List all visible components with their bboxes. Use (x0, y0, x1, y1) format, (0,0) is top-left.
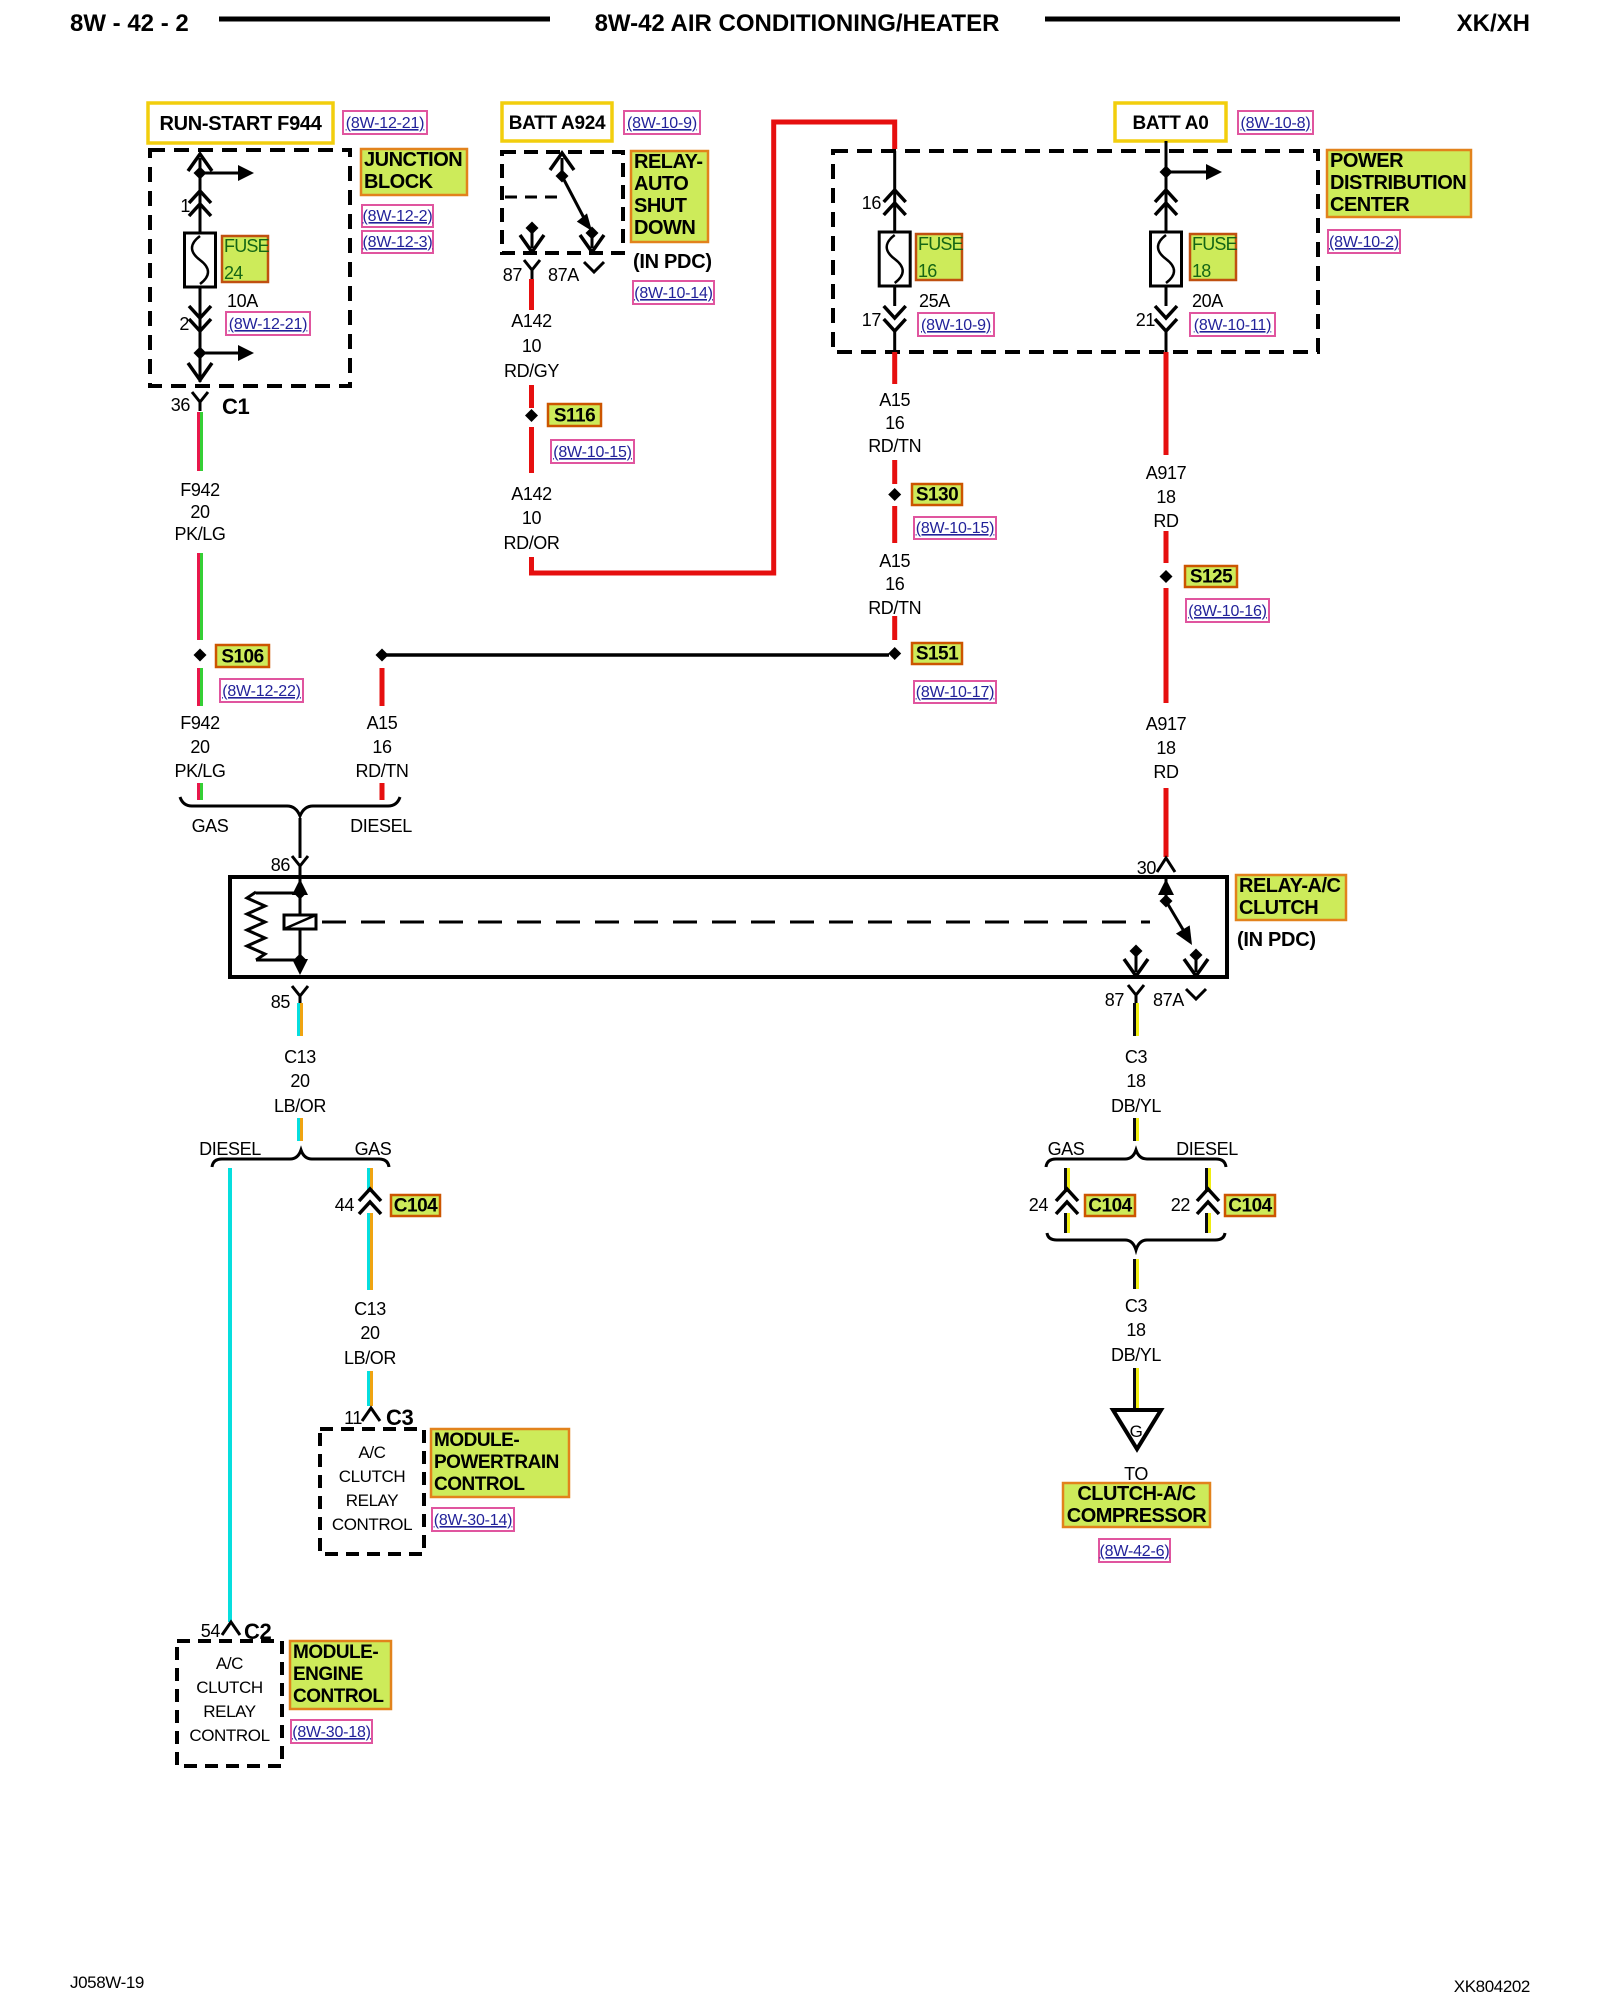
svg-text:(IN PDC): (IN PDC) (633, 251, 712, 273)
svg-text:CONTROL: CONTROL (332, 1515, 412, 1534)
svg-text:AUTO: AUTO (634, 173, 688, 195)
svg-text:ENGINE: ENGINE (293, 1664, 363, 1685)
svg-text:RELAY-: RELAY- (634, 151, 703, 173)
svg-text:RELAY: RELAY (203, 1702, 256, 1721)
svg-text:PK/LG: PK/LG (174, 524, 225, 544)
svg-text:S106: S106 (221, 647, 263, 668)
svg-text:(8W-30-18): (8W-30-18) (292, 1724, 371, 1741)
svg-text:16: 16 (862, 193, 882, 213)
svg-text:18: 18 (1126, 1320, 1146, 1340)
svg-text:8W - 42 - 2: 8W - 42 - 2 (70, 10, 189, 37)
svg-text:S116: S116 (554, 406, 595, 427)
svg-text:GAS: GAS (355, 1139, 392, 1159)
svg-text:DIESEL: DIESEL (199, 1139, 261, 1159)
svg-text:10: 10 (522, 508, 542, 528)
svg-text:DISTRIBUTION: DISTRIBUTION (1330, 172, 1466, 194)
svg-text:25A: 25A (919, 291, 950, 311)
svg-text:(8W-12-2): (8W-12-2) (363, 208, 433, 225)
svg-text:16: 16 (372, 737, 392, 757)
svg-text:54: 54 (201, 1621, 221, 1641)
svg-text:CONTROL: CONTROL (293, 1686, 384, 1707)
svg-text:A142: A142 (511, 311, 552, 331)
svg-text:24: 24 (1029, 1195, 1049, 1215)
svg-text:A/C: A/C (358, 1443, 385, 1462)
svg-text:CLUTCH: CLUTCH (339, 1467, 406, 1486)
svg-text:POWER: POWER (1330, 150, 1404, 172)
svg-text:G: G (1130, 1422, 1143, 1441)
svg-text:RELAY-A/C: RELAY-A/C (1239, 875, 1341, 897)
svg-text:87: 87 (503, 265, 523, 285)
svg-text:LB/OR: LB/OR (344, 1348, 396, 1368)
svg-text:MODULE-: MODULE- (434, 1430, 519, 1451)
svg-text:GAS: GAS (192, 816, 229, 836)
svg-text:DOWN: DOWN (634, 217, 695, 239)
svg-text:18: 18 (1156, 738, 1176, 758)
svg-text:18: 18 (1192, 261, 1211, 281)
svg-text:POWERTRAIN: POWERTRAIN (434, 1452, 559, 1473)
svg-text:36: 36 (171, 395, 191, 415)
svg-text:COMPRESSOR: COMPRESSOR (1067, 1505, 1208, 1527)
svg-text:C3: C3 (386, 1405, 413, 1430)
svg-text:(8W-10-9): (8W-10-9) (921, 317, 991, 334)
svg-text:RELAY: RELAY (346, 1491, 399, 1510)
svg-text:87A: 87A (548, 265, 579, 285)
svg-text:A/C: A/C (216, 1654, 243, 1673)
svg-text:(8W-42-6): (8W-42-6) (1100, 1543, 1170, 1560)
svg-text:C104: C104 (1228, 1196, 1272, 1217)
svg-text:RD/GY: RD/GY (504, 361, 559, 381)
svg-text:20: 20 (190, 502, 210, 522)
svg-text:(8W-10-2): (8W-10-2) (1329, 234, 1399, 251)
svg-text:20: 20 (360, 1323, 380, 1343)
svg-text:(8W-10-11): (8W-10-11) (1194, 317, 1271, 334)
svg-text:86: 86 (271, 855, 291, 875)
svg-text:F942: F942 (180, 713, 220, 733)
svg-text:CLUTCH-A/C: CLUTCH-A/C (1077, 1483, 1195, 1505)
svg-text:XK/XH: XK/XH (1457, 10, 1530, 37)
svg-text:CONTROL: CONTROL (189, 1726, 269, 1745)
svg-text:A917: A917 (1146, 463, 1187, 483)
svg-text:A142: A142 (511, 484, 552, 504)
svg-text:(8W-10-15): (8W-10-15) (916, 520, 995, 537)
svg-text:18: 18 (1126, 1071, 1146, 1091)
svg-text:16: 16 (885, 413, 905, 433)
svg-text:C3: C3 (1125, 1296, 1148, 1316)
svg-text:RD: RD (1153, 511, 1179, 531)
svg-text:(8W-10-9): (8W-10-9) (627, 115, 697, 132)
svg-text:(IN PDC): (IN PDC) (1237, 929, 1316, 951)
svg-text:FUSE: FUSE (918, 234, 964, 254)
svg-text:CLUTCH: CLUTCH (1239, 897, 1318, 919)
svg-text:BATT A0: BATT A0 (1132, 113, 1208, 134)
svg-text:DB/YL: DB/YL (1111, 1096, 1161, 1116)
svg-text:S125: S125 (1190, 567, 1233, 588)
svg-text:PK/LG: PK/LG (174, 761, 225, 781)
svg-text:C1: C1 (222, 394, 249, 419)
svg-text:F942: F942 (180, 480, 220, 500)
svg-text:24: 24 (224, 263, 243, 283)
svg-text:A15: A15 (879, 390, 910, 410)
svg-text:(8W-10-15): (8W-10-15) (553, 444, 632, 461)
svg-text:C3: C3 (1125, 1047, 1148, 1067)
svg-text:MODULE-: MODULE- (293, 1642, 378, 1663)
svg-text:LB/OR: LB/OR (274, 1096, 326, 1116)
svg-text:A917: A917 (1146, 714, 1187, 734)
svg-text:RD/TN: RD/TN (868, 598, 921, 618)
svg-text:10: 10 (522, 336, 542, 356)
svg-text:87: 87 (1105, 990, 1125, 1010)
svg-text:RD/OR: RD/OR (504, 533, 560, 553)
svg-text:(8W-12-21): (8W-12-21) (346, 115, 425, 132)
svg-text:A15: A15 (367, 713, 398, 733)
svg-text:RUN-START F944: RUN-START F944 (159, 113, 322, 135)
svg-text:CONTROL: CONTROL (434, 1474, 525, 1495)
svg-text:FUSE: FUSE (224, 236, 270, 256)
svg-text:(8W-10-14): (8W-10-14) (634, 285, 713, 302)
svg-text:(8W-30-14): (8W-30-14) (434, 1512, 513, 1529)
svg-text:SHUT: SHUT (634, 195, 687, 217)
svg-text:(8W-12-21): (8W-12-21) (229, 316, 308, 333)
svg-text:(8W-10-17): (8W-10-17) (916, 684, 995, 701)
svg-text:87A: 87A (1153, 990, 1184, 1010)
svg-text:85: 85 (271, 992, 291, 1012)
svg-text:1: 1 (180, 196, 190, 216)
svg-text:BLOCK: BLOCK (364, 171, 434, 193)
svg-text:J058W-19: J058W-19 (70, 1973, 144, 1992)
svg-text:XK804202: XK804202 (1454, 1977, 1530, 1996)
svg-text:16: 16 (885, 574, 905, 594)
svg-text:RD/TN: RD/TN (868, 436, 921, 456)
svg-text:11: 11 (344, 1408, 362, 1428)
svg-text:BATT A924: BATT A924 (509, 113, 606, 134)
svg-text:17: 17 (862, 310, 882, 330)
svg-text:DB/YL: DB/YL (1111, 1345, 1161, 1365)
svg-text:(8W-10-8): (8W-10-8) (1241, 115, 1311, 132)
svg-text:DIESEL: DIESEL (350, 816, 412, 836)
svg-text:CLUTCH: CLUTCH (196, 1678, 263, 1697)
svg-text:C104: C104 (394, 1196, 438, 1217)
svg-text:C104: C104 (1088, 1196, 1132, 1217)
svg-text:C13: C13 (354, 1299, 386, 1319)
svg-text:20A: 20A (1192, 291, 1223, 311)
svg-text:(8W-12-22): (8W-12-22) (222, 683, 301, 700)
svg-text:18: 18 (1156, 487, 1176, 507)
svg-text:16: 16 (918, 261, 937, 281)
svg-text:S130: S130 (916, 485, 958, 506)
svg-text:(8W-10-16): (8W-10-16) (1188, 603, 1267, 620)
svg-text:CENTER: CENTER (1330, 194, 1410, 216)
svg-text:DIESEL: DIESEL (1176, 1139, 1238, 1159)
svg-text:21: 21 (1136, 310, 1156, 330)
svg-text:RD: RD (1153, 762, 1179, 782)
svg-text:8W-42 AIR CONDITIONING/HEATER: 8W-42 AIR CONDITIONING/HEATER (595, 10, 1000, 37)
svg-text:10A: 10A (227, 291, 258, 311)
svg-text:20: 20 (190, 737, 210, 757)
svg-text:C13: C13 (284, 1047, 316, 1067)
svg-text:RD/TN: RD/TN (356, 761, 409, 781)
svg-text:TO: TO (1124, 1464, 1148, 1484)
svg-text:44: 44 (335, 1195, 355, 1215)
svg-text:(8W-12-3): (8W-12-3) (363, 234, 433, 251)
svg-text:22: 22 (1171, 1195, 1191, 1215)
svg-text:A15: A15 (879, 551, 910, 571)
svg-text:2: 2 (179, 314, 189, 334)
svg-text:JUNCTION: JUNCTION (364, 149, 462, 171)
svg-text:GAS: GAS (1048, 1139, 1085, 1159)
svg-text:FUSE: FUSE (1192, 234, 1238, 254)
svg-text:S151: S151 (916, 644, 959, 665)
svg-text:20: 20 (290, 1071, 310, 1091)
